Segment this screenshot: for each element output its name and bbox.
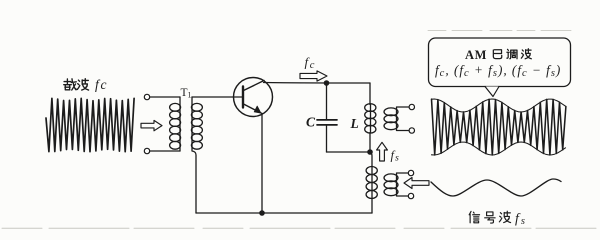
wire tank to lower coil bbox=[370, 152, 372, 166]
scan artifact above bubble bbox=[428, 30, 575, 32]
block arrow signal (left) bbox=[404, 178, 429, 189]
svg-text:fs: fs bbox=[391, 149, 400, 164]
bottom rail bbox=[196, 212, 372, 214]
svg-text:fs: fs bbox=[515, 212, 525, 228]
block arrow fs (up) bbox=[377, 142, 388, 161]
tank bottom wire bbox=[327, 151, 371, 153]
svg-text:fc, (fc + fs), (fc − fs): fc, (fc + fs), (fc − fs) bbox=[435, 63, 561, 79]
svg-text:fc: fc bbox=[95, 77, 108, 92]
callout bubble bbox=[429, 38, 571, 87]
svg-text:AM: AM bbox=[465, 48, 487, 62]
block arrow fc bbox=[300, 71, 327, 81]
output terminals upper bbox=[409, 104, 414, 109]
T1 primary leads bbox=[150, 97, 180, 151]
inductor L bbox=[365, 83, 376, 152]
junction dot emitter bbox=[259, 210, 265, 216]
signal sine wave bbox=[431, 179, 561, 196]
svg-text:T1: T1 bbox=[181, 87, 192, 100]
emitter wire down bbox=[261, 114, 263, 214]
modulation winding left bbox=[366, 166, 377, 213]
transformer T1 terminals bbox=[144, 94, 149, 99]
scan artifact line bbox=[2, 227, 598, 229]
AM envelope top bbox=[432, 99, 566, 112]
collector wire to tank bbox=[264, 82, 371, 85]
svg-text:fc: fc bbox=[305, 55, 315, 72]
svg-text:L: L bbox=[350, 116, 359, 131]
carrier waveform 载波 bbox=[46, 98, 134, 151]
junction dot tank bottom bbox=[367, 149, 373, 155]
output winding upper bbox=[384, 107, 409, 131]
label 载波 fc bbox=[64, 79, 89, 90]
T1 primary coil bbox=[170, 97, 181, 151]
junction dot at C branch bbox=[324, 80, 330, 86]
label 信号波 fs bbox=[469, 211, 510, 223]
capacitor C bbox=[326, 83, 328, 119]
modulation terminals bbox=[408, 170, 413, 175]
block arrow into T1 bbox=[141, 120, 162, 130]
AM envelope bottom bbox=[432, 142, 566, 155]
bubble tail bbox=[485, 87, 499, 97]
AM modulated waveform bbox=[432, 99, 566, 155]
transistor Q1 bbox=[234, 78, 273, 117]
svg-text:C: C bbox=[306, 115, 316, 130]
wire T1 secondary to base bbox=[192, 96, 243, 98]
T1 secondary coil bbox=[191, 97, 202, 213]
modulation winding right bbox=[384, 173, 408, 196]
